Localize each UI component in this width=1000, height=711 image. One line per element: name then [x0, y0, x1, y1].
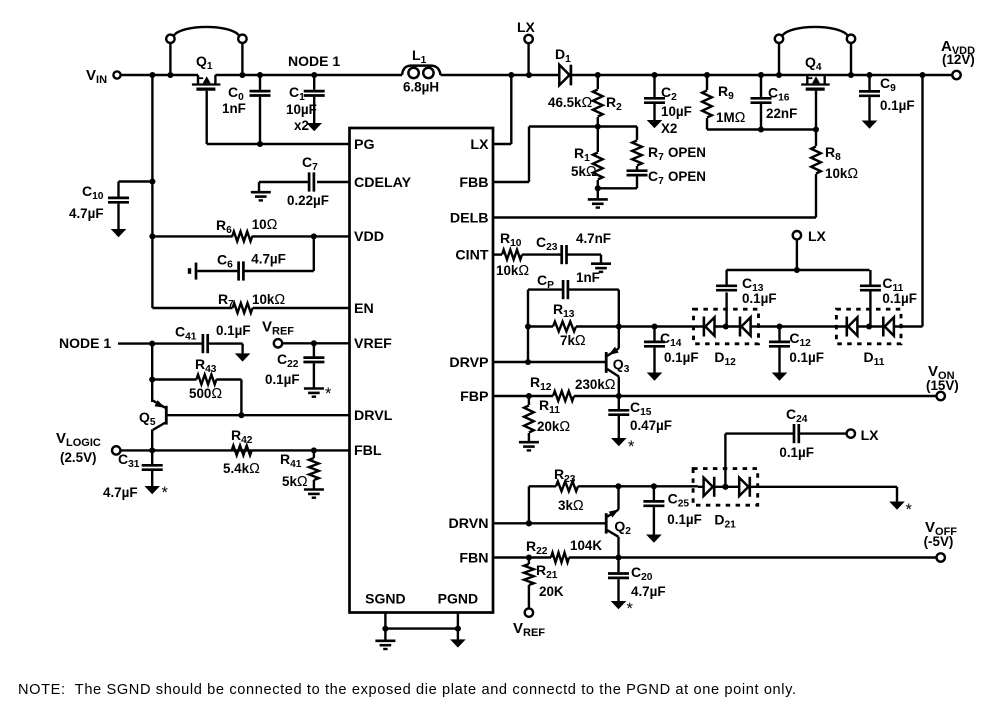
svg-text:LX: LX — [861, 427, 880, 443]
svg-text:0.1µF: 0.1µF — [779, 445, 814, 460]
svg-text:LX: LX — [470, 137, 489, 153]
svg-text:NODE 1: NODE 1 — [288, 53, 340, 69]
svg-text:4.7µF: 4.7µF — [251, 252, 286, 267]
svg-text:500Ω: 500Ω — [189, 386, 222, 402]
svg-text:VREF: VREF — [354, 336, 392, 352]
svg-text:PG: PG — [354, 137, 375, 153]
svg-text:46.5kΩ: 46.5kΩ — [548, 95, 593, 111]
svg-text:NODE 1: NODE 1 — [59, 335, 111, 351]
svg-text:230kΩ: 230kΩ — [575, 377, 616, 393]
svg-text:1nF: 1nF — [222, 101, 246, 116]
svg-text:(12V): (12V) — [942, 52, 975, 67]
svg-text:*: * — [906, 501, 913, 519]
svg-text:3kΩ: 3kΩ — [558, 498, 584, 514]
svg-text:104K: 104K — [570, 538, 602, 553]
svg-text:20kΩ: 20kΩ — [537, 419, 570, 435]
svg-text:0.1µF: 0.1µF — [742, 291, 777, 306]
svg-text:10kΩ: 10kΩ — [825, 166, 858, 182]
svg-text:DELB: DELB — [450, 211, 489, 227]
svg-text:OPEN: OPEN — [668, 169, 706, 184]
svg-text:CDELAY: CDELAY — [354, 175, 412, 191]
svg-text:4.7µF: 4.7µF — [631, 584, 666, 599]
svg-text:(2.5V): (2.5V) — [60, 450, 96, 465]
svg-text:7kΩ: 7kΩ — [560, 333, 586, 349]
svg-text:0.22µF: 0.22µF — [287, 193, 329, 208]
svg-text:NOTE: The SGND should be conn: NOTE: The SGND should be connected to th… — [18, 682, 797, 698]
svg-text:CINT: CINT — [455, 248, 488, 264]
svg-text:4.7nF: 4.7nF — [576, 231, 611, 246]
svg-text:10kΩ: 10kΩ — [252, 292, 285, 308]
svg-text:PGND: PGND — [438, 590, 478, 606]
svg-text:FBP: FBP — [460, 389, 488, 405]
svg-text:1MΩ: 1MΩ — [716, 110, 746, 126]
svg-text:LX: LX — [808, 228, 827, 244]
svg-text:0.47µF: 0.47µF — [630, 418, 672, 433]
svg-text:10µF: 10µF — [286, 102, 317, 117]
svg-text:10kΩ: 10kΩ — [496, 263, 529, 279]
svg-text:1nF: 1nF — [576, 270, 600, 285]
svg-text:0.1µF: 0.1µF — [265, 372, 300, 387]
svg-text:5.4kΩ: 5.4kΩ — [223, 461, 260, 477]
svg-text:EN: EN — [354, 301, 374, 317]
svg-text:*: * — [325, 385, 332, 403]
svg-text:VDD: VDD — [354, 229, 384, 245]
svg-text:(-5V): (-5V) — [924, 534, 954, 549]
svg-text:0.1µF: 0.1µF — [789, 350, 824, 365]
svg-text:0.1µF: 0.1µF — [880, 98, 915, 113]
svg-text:*: * — [628, 438, 635, 456]
svg-text:10Ω: 10Ω — [252, 217, 278, 233]
svg-text:*: * — [627, 600, 634, 618]
svg-text:X2: X2 — [661, 121, 677, 136]
svg-text:SGND: SGND — [365, 590, 405, 606]
svg-text:4.7µF: 4.7µF — [103, 485, 138, 500]
svg-text:FBB: FBB — [459, 175, 488, 191]
svg-text:22nF: 22nF — [766, 106, 797, 121]
svg-text:0.1µF: 0.1µF — [216, 323, 251, 338]
svg-text:LX: LX — [517, 19, 536, 35]
svg-text:0.1µF: 0.1µF — [882, 291, 917, 306]
svg-text:(15V): (15V) — [926, 378, 959, 393]
svg-text:*: * — [162, 484, 169, 502]
svg-text:5kΩ: 5kΩ — [571, 164, 597, 180]
svg-text:FBL: FBL — [354, 443, 382, 459]
svg-text:0.1µF: 0.1µF — [667, 512, 702, 527]
svg-text:20K: 20K — [539, 584, 564, 599]
svg-text:0.1µF: 0.1µF — [664, 350, 699, 365]
svg-text:4.7µF: 4.7µF — [69, 206, 104, 221]
svg-text:OPEN: OPEN — [668, 145, 706, 160]
svg-text:10µF: 10µF — [661, 104, 692, 119]
svg-text:DRVL: DRVL — [354, 408, 393, 424]
svg-text:5kΩ: 5kΩ — [282, 474, 308, 490]
svg-text:FBN: FBN — [459, 551, 488, 567]
svg-text:DRVN: DRVN — [449, 516, 489, 532]
svg-text:DRVP: DRVP — [449, 355, 488, 371]
svg-text:x2: x2 — [294, 118, 309, 133]
svg-text:6.8µH: 6.8µH — [403, 80, 439, 95]
